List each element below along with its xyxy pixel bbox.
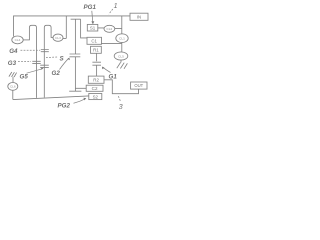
svg-text:PG1: PG1 [84,4,97,11]
svg-text:G1: G1 [109,74,118,81]
svg-text:CL1: CL1 [119,37,125,41]
svg-text:CL2: CL2 [107,27,113,31]
svg-text:3: 3 [119,104,123,111]
svg-text:CL5: CL5 [118,54,124,58]
svg-text:CL4: CL4 [15,38,21,42]
svg-text:C1: C1 [91,39,97,44]
svg-text:G4: G4 [9,48,18,55]
svg-text:CL3: CL3 [55,36,61,40]
svg-text:1: 1 [114,3,118,10]
svg-text:PG2: PG2 [58,103,71,110]
svg-text:G5: G5 [20,73,29,80]
svg-text:S1: S1 [90,25,96,30]
svg-text:G3: G3 [8,60,17,67]
svg-text:IN: IN [137,14,141,19]
svg-text:G2: G2 [52,70,61,77]
svg-text:S: S [60,55,65,62]
svg-text:R1: R1 [93,48,99,53]
svg-text:OUT: OUT [134,83,143,88]
svg-text:S2: S2 [93,94,99,99]
svg-text:R2: R2 [93,77,99,82]
svg-text:CL6: CL6 [10,85,16,89]
svg-text:C2: C2 [92,86,98,91]
